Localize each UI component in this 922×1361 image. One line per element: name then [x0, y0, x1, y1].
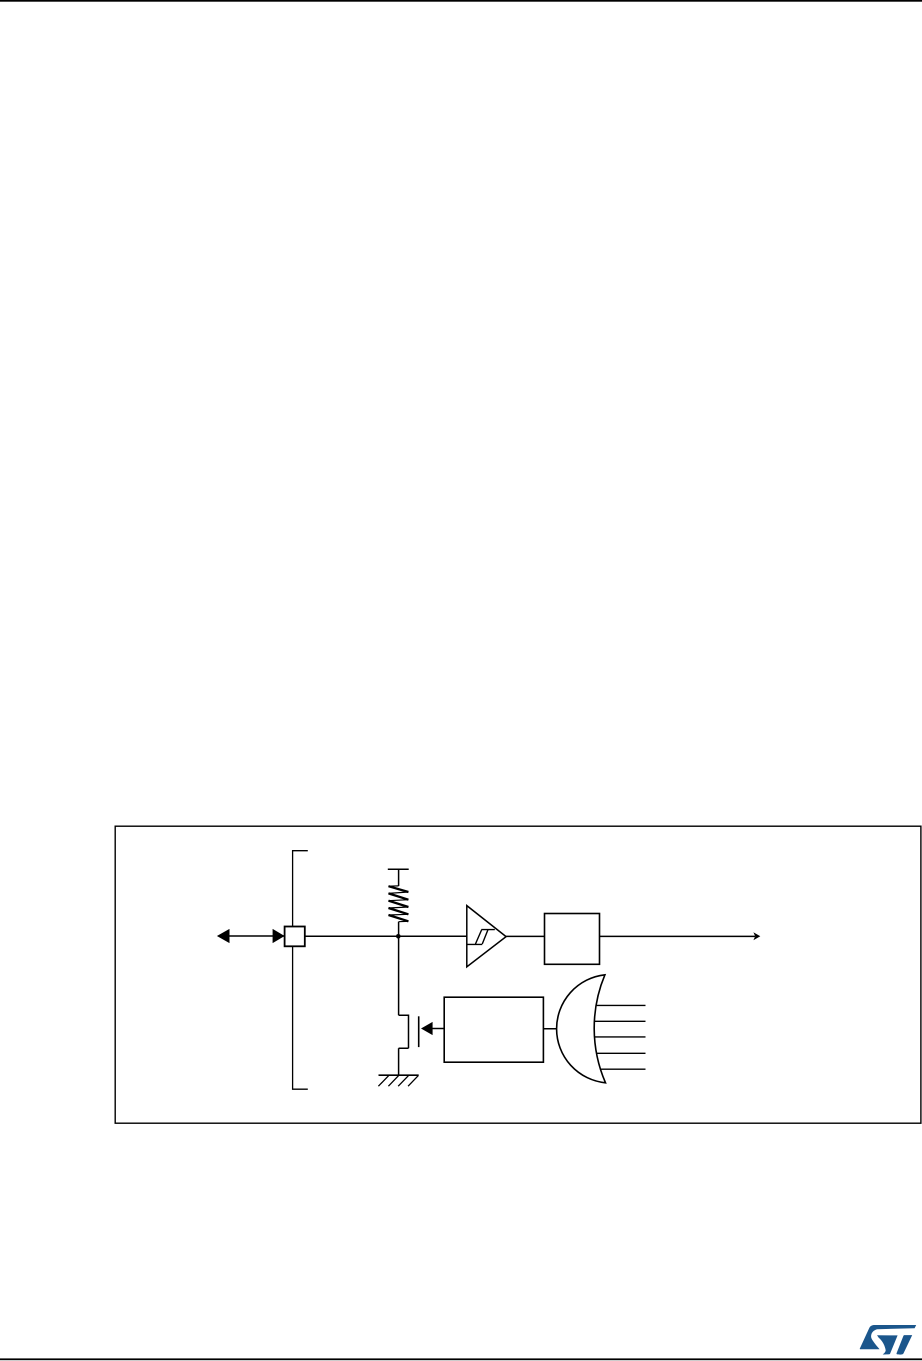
pull-up resistor RPU: [389, 869, 409, 936]
I/O pad square: [285, 927, 305, 947]
node junction dot: [396, 934, 401, 939]
pulse generator box U3: [444, 997, 543, 1062]
VDD supply bar: [388, 868, 409, 870]
gate arrow: [421, 1022, 444, 1035]
wire pad to Schmitt input: [295, 935, 467, 937]
Schmitt trigger U1: [467, 906, 506, 967]
pin boundary bracket: [293, 851, 308, 1089]
hysteresis symbol: [467, 930, 495, 945]
bidirectional I/O arrow: [217, 929, 285, 943]
filter box U2: [545, 914, 600, 965]
wire pulse generator to OR gate: [543, 1028, 560, 1030]
transistor Q1 pull-down NMOS: [399, 1015, 419, 1076]
wire Schmitt to filter box: [506, 935, 544, 937]
OR gate input wires: [592, 1005, 646, 1069]
figure frame: [115, 826, 921, 1123]
OR gate U4: [557, 975, 606, 1083]
system reset output wire: [600, 932, 761, 940]
wire node to MOSFET drain: [398, 936, 400, 1015]
top page rule: [0, 0, 922, 2]
ST logo: [860, 1325, 916, 1355]
ground: [378, 1075, 418, 1086]
bottom page rule: [0, 1358, 922, 1360]
